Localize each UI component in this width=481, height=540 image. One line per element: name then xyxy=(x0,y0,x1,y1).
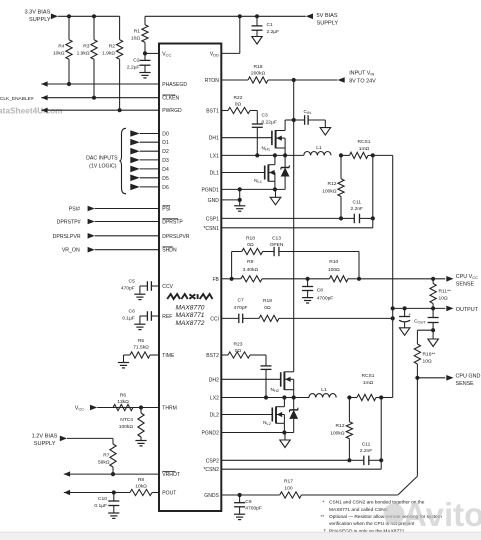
svg-text:0.1µF: 0.1µF xyxy=(94,503,107,509)
node THRM xyxy=(139,405,143,409)
wire CSN2 xyxy=(221,468,381,470)
svg-text:INPUT VIN: INPUT VIN xyxy=(349,71,374,77)
label R12 phase1 xyxy=(322,181,337,194)
node C3 bottom xyxy=(255,153,259,157)
pin label D2 xyxy=(162,149,169,155)
wire PGND1 xyxy=(221,188,285,190)
wire PWRGD xyxy=(41,109,159,111)
node L2 out xyxy=(347,395,351,399)
label R7 xyxy=(98,452,110,465)
pin label DPRSTP (active low) xyxy=(162,219,183,226)
svg-text:THRM: THRM xyxy=(162,406,177,412)
thermistor NTC4 xyxy=(138,408,144,441)
svg-text:SENSE: SENSE xyxy=(456,381,475,387)
note line 4 xyxy=(329,521,415,527)
D6 input arrow xyxy=(130,184,159,191)
resistor RCS2 xyxy=(349,394,381,400)
label C10 xyxy=(94,496,107,509)
pin label *CSN2 xyxy=(203,467,219,473)
svg-text:10Ω: 10Ω xyxy=(131,36,140,42)
svg-text:R12: R12 xyxy=(336,423,345,429)
label NL1 xyxy=(254,178,262,184)
ground C1 triangle xyxy=(252,37,262,45)
wire C13 riser xyxy=(358,252,360,279)
svg-text:R23: R23 xyxy=(234,341,243,347)
svg-text:470pF: 470pF xyxy=(234,305,248,311)
CPU GND sense arrow xyxy=(446,375,453,381)
capacitor C3 (BST1) xyxy=(252,111,263,156)
wire CSN1 riser xyxy=(372,155,374,227)
node GND xyxy=(238,198,242,202)
pin label DL1 xyxy=(210,171,219,177)
label R2 xyxy=(102,44,115,57)
svg-text:NTC4: NTC4 xyxy=(120,417,133,423)
wire DL1 xyxy=(221,172,264,174)
node output rail-output xyxy=(391,306,395,310)
D5 input arrow xyxy=(130,175,159,182)
VRHOT arrow xyxy=(64,471,70,476)
ground phase1 triangle xyxy=(270,189,281,204)
node PGND1 gnd-link xyxy=(238,187,242,191)
resistor R12 (phase1) xyxy=(338,155,344,218)
svg-text:L1: L1 xyxy=(321,387,327,393)
label MAX8770 xyxy=(176,304,205,311)
svg-text:PWRGD: PWRGD xyxy=(162,108,182,114)
wire gnd sense diagonal xyxy=(398,476,418,495)
label DAC INPUTS xyxy=(86,156,118,170)
svg-text:PSI: PSI xyxy=(162,207,170,213)
svg-text:PGND2: PGND2 xyxy=(202,431,220,437)
svg-text:DPRSLPVR: DPRSLPVR xyxy=(53,234,81,240)
wire CPU GND sense xyxy=(417,377,445,379)
svg-text:NH1: NH1 xyxy=(262,146,271,152)
pin label CLKEN (active low) xyxy=(162,95,179,102)
node NL1 source xyxy=(273,187,277,191)
resistor R6 xyxy=(113,404,133,410)
svg-text:5V BIAS: 5V BIAS xyxy=(317,13,338,19)
svg-text:71.5kΩ: 71.5kΩ xyxy=(133,344,149,350)
watermark DataSheet4U.com xyxy=(0,105,63,115)
svg-text:GNDS: GNDS xyxy=(204,493,219,499)
resistor R2 xyxy=(117,16,123,110)
pin label BST1 xyxy=(206,109,219,115)
svg-text:*CSN2: *CSN2 xyxy=(203,467,219,473)
ground Cout2 triangle xyxy=(428,330,439,346)
svg-text:D0: D0 xyxy=(162,132,169,138)
label C1 xyxy=(267,22,280,35)
svg-text:100kΩ: 100kΩ xyxy=(322,188,337,194)
svg-text:(1V LOGIC): (1V LOGIC) xyxy=(89,164,117,170)
svg-text:SUPPLY: SUPPLY xyxy=(29,17,51,23)
node VCC xyxy=(143,51,147,55)
pin label FB xyxy=(212,277,219,283)
svg-text:+: + xyxy=(408,312,411,317)
svg-text:0Ω: 0Ω xyxy=(235,101,242,107)
pin label VDD xyxy=(210,51,219,57)
pin label D1 xyxy=(162,140,169,146)
wire PHASEGD xyxy=(41,83,159,85)
node NL1 drain xyxy=(273,153,277,157)
svg-text:VCC: VCC xyxy=(75,406,84,412)
D4 input arrow xyxy=(130,166,159,173)
svg-text:OPEN: OPEN xyxy=(270,242,284,248)
svg-text:100kΩ: 100kΩ xyxy=(330,430,345,436)
node R11 top xyxy=(431,277,435,281)
ground C5 xyxy=(134,294,145,299)
svg-text:100: 100 xyxy=(284,485,292,491)
pin label D0 xyxy=(162,132,169,138)
svg-text:R16**: R16** xyxy=(423,352,436,358)
svg-text:R2: R2 xyxy=(109,44,116,50)
label C2 xyxy=(127,58,140,71)
svg-text:L1: L1 xyxy=(316,145,322,151)
note line 1 xyxy=(323,499,425,505)
svg-text:R1: R1 xyxy=(134,29,141,35)
svg-text:SUPPLY: SUPPLY xyxy=(34,441,56,447)
resistor R22 xyxy=(228,107,257,113)
svg-text:470pF: 470pF xyxy=(121,285,135,291)
label MAX8772 xyxy=(176,320,205,327)
svg-text:CSP1: CSP1 xyxy=(206,216,219,222)
node C1 top xyxy=(255,14,259,18)
resistor R16 xyxy=(414,344,420,378)
wire PGND2 xyxy=(221,432,293,434)
node RCS1 out xyxy=(371,153,375,157)
svg-text:2.2nF: 2.2nF xyxy=(360,448,373,454)
label 1.2V BIAS SUPPLY xyxy=(32,433,58,447)
pin label VCC xyxy=(162,51,171,57)
svg-text:0Ω: 0Ω xyxy=(247,242,254,248)
capacitor C13 xyxy=(274,247,359,256)
wire output rail xyxy=(392,155,394,397)
label C11 phase2 xyxy=(360,441,373,454)
note line 3 xyxy=(321,514,442,520)
resistor R18 (FB) xyxy=(232,248,275,254)
capacitor COUT (electrolytic) xyxy=(399,308,411,327)
svg-text:MAX8771 and called CSN2.: MAX8771 and called CSN2. xyxy=(329,507,389,513)
svg-text:NH2: NH2 xyxy=(271,387,280,393)
label RCS1 xyxy=(357,139,370,152)
svg-text:R5: R5 xyxy=(138,338,145,344)
svg-text:DL1: DL1 xyxy=(210,171,219,177)
capacitor C8 xyxy=(302,279,313,298)
svg-text:10Ω: 10Ω xyxy=(439,296,448,302)
svg-text:PHASEGD: PHASEGD xyxy=(162,82,187,88)
svg-text:VR_ON: VR_ON xyxy=(62,248,80,254)
label CIN xyxy=(304,109,312,115)
svg-text:Avito: Avito xyxy=(403,496,481,533)
wire GND riser xyxy=(239,189,241,205)
svg-text:D6: D6 xyxy=(162,185,169,191)
svg-text:DH2: DH2 xyxy=(209,377,219,383)
node sense gnd xyxy=(431,328,435,332)
node INPUT xyxy=(292,78,296,82)
resistor R1 xyxy=(142,16,148,53)
svg-text:R6: R6 xyxy=(120,393,127,399)
label R22 xyxy=(234,95,243,108)
svg-text:DPRSTP#: DPRSTP# xyxy=(57,220,81,226)
ground CIN triangle xyxy=(320,128,331,136)
node NH2 source xyxy=(292,395,296,399)
label R3 xyxy=(77,44,90,57)
wire BST2 xyxy=(221,354,228,356)
resistor R17 xyxy=(280,492,398,498)
svg-text:CCV: CCV xyxy=(162,284,173,290)
label R1 xyxy=(131,29,140,42)
label R23 xyxy=(234,341,243,354)
wire CPU VCC sense xyxy=(359,278,445,280)
ground GND xyxy=(234,206,245,211)
svg-text:TIME: TIME xyxy=(162,353,175,359)
VR_ON arrow xyxy=(88,247,159,253)
svg-text:C3: C3 xyxy=(262,113,269,119)
node R3 top xyxy=(92,14,96,18)
svg-text:DL2: DL2 xyxy=(210,413,219,419)
label DPRSLPVR xyxy=(53,234,81,240)
svg-text:13kΩ: 13kΩ xyxy=(117,399,129,405)
resistor R7 xyxy=(110,444,116,474)
label PSI# xyxy=(69,207,80,213)
wire FB xyxy=(221,278,231,280)
label L1 xyxy=(316,145,322,151)
svg-text:RTON: RTON xyxy=(205,78,219,84)
node POUT xyxy=(112,490,116,494)
wire OUTPUT xyxy=(393,307,446,309)
svg-text:1.2V BIAS: 1.2V BIAS xyxy=(32,433,58,439)
capacitor CIN xyxy=(294,115,326,127)
svg-text:CLKEN: CLKEN xyxy=(162,96,179,102)
node NH1 drain xyxy=(292,118,296,122)
wire 5V rail xyxy=(145,15,306,17)
svg-text:10kΩ: 10kΩ xyxy=(135,484,147,490)
label R16 xyxy=(423,352,436,365)
label CPU VCC SENSE xyxy=(456,274,478,288)
PSI arrow xyxy=(88,206,159,212)
svg-text:C5: C5 xyxy=(129,278,136,284)
label R10 xyxy=(328,259,340,273)
label C6 xyxy=(122,308,135,321)
pin label D6 xyxy=(162,185,169,191)
op-amp U1 MAX8770 controller IC body xyxy=(159,44,221,512)
svg-text:0Ω: 0Ω xyxy=(235,348,242,354)
wire CSN2 riser xyxy=(380,398,382,470)
svg-text:PSI#: PSI# xyxy=(69,207,80,213)
node CLKEN-R3 xyxy=(92,96,96,100)
pin label D4 xyxy=(162,167,169,173)
svg-text:D1: D1 xyxy=(162,140,169,146)
node FB xyxy=(230,277,234,281)
pin label VRHOT (active low) xyxy=(162,471,180,478)
pin label CSP2 xyxy=(206,458,219,464)
svg-text:MAX8770: MAX8770 xyxy=(176,304,205,311)
node R10 right xyxy=(357,277,361,281)
svg-text:10kΩ: 10kΩ xyxy=(53,51,65,57)
wire BST1 xyxy=(221,110,228,112)
label MAXIM logo xyxy=(167,294,212,299)
pin label PGND2 xyxy=(202,431,220,437)
1.2V arrow xyxy=(60,436,67,442)
pin label PHASEGD xyxy=(162,82,187,88)
wire 1.2V xyxy=(67,438,113,444)
svg-text:C11: C11 xyxy=(362,441,371,447)
CLKEN arrow xyxy=(41,95,47,100)
wire LX2 xyxy=(221,397,309,399)
label C5 xyxy=(121,278,135,291)
D0 input arrow xyxy=(130,130,159,137)
node CSP1 xyxy=(339,216,343,220)
wire FB riser xyxy=(231,252,233,279)
svg-text:100Ω: 100Ω xyxy=(328,267,340,273)
node PHASEGD-R4 xyxy=(67,82,71,86)
svg-text:3.3V BIAS: 3.3V BIAS xyxy=(25,10,51,16)
label R4 xyxy=(53,44,65,57)
label CLK_ENABLE# xyxy=(0,96,34,102)
svg-text:*CSN1: *CSN1 xyxy=(203,226,219,232)
INPUT arrow xyxy=(338,77,345,83)
label C13 xyxy=(270,235,284,248)
label OUTPUT xyxy=(456,307,479,313)
bottom page band xyxy=(0,532,481,540)
resistor R18 (CCI) xyxy=(243,315,393,321)
label COUT xyxy=(414,318,426,324)
svg-text:1.9kΩ: 1.9kΩ xyxy=(77,51,90,57)
svg-text:NL2: NL2 xyxy=(263,420,271,426)
wire RTON xyxy=(221,79,248,81)
pin label D5 xyxy=(162,176,169,182)
wire CLKEN xyxy=(41,97,159,99)
node CBST2 bottom xyxy=(264,395,268,399)
wire CSN1 xyxy=(221,227,372,229)
ground NTC4 xyxy=(135,441,146,446)
svg-text:R9: R9 xyxy=(247,259,254,265)
wire rail to RCS2 xyxy=(381,397,393,399)
pin label GND xyxy=(208,198,220,204)
svg-text:FB: FB xyxy=(212,277,219,283)
svg-text:LX2: LX2 xyxy=(210,396,219,402)
resistor RCS1 xyxy=(341,152,373,158)
wire CSP1 xyxy=(221,217,341,219)
svg-text:VRHOT: VRHOT xyxy=(162,472,180,478)
svg-text:0Ω: 0Ω xyxy=(264,305,271,311)
label R6 xyxy=(117,393,129,406)
svg-text:NL1: NL1 xyxy=(254,178,262,184)
svg-text:R18: R18 xyxy=(246,235,255,241)
node CPU GND sense xyxy=(415,376,419,380)
label NL2 xyxy=(263,420,271,426)
svg-text:VCC: VCC xyxy=(162,51,171,57)
svg-text:4700pF: 4700pF xyxy=(245,506,262,512)
node VDD riser xyxy=(238,14,242,18)
svg-text:0.22µF: 0.22µF xyxy=(262,119,277,125)
capacitor C2 xyxy=(140,53,151,72)
resistor R8 xyxy=(130,489,159,495)
capacitor C10 xyxy=(108,493,119,514)
CPU VCC sense arrow xyxy=(446,276,453,282)
svg-text:C8: C8 xyxy=(317,288,324,294)
wire LX1 xyxy=(221,154,303,156)
svg-text:*: * xyxy=(323,499,325,505)
svg-text:GND: GND xyxy=(208,198,220,204)
svg-text:R3: R3 xyxy=(83,44,90,50)
svg-text:D3: D3 xyxy=(162,158,169,164)
pin label BST2 xyxy=(206,353,219,359)
label VCC thrm xyxy=(75,406,84,412)
ground phase2 triangle xyxy=(280,433,290,448)
resistor R10 xyxy=(308,276,359,282)
node VRHOT xyxy=(111,472,115,476)
POUT arrow xyxy=(64,490,70,495)
ground C2 xyxy=(139,73,150,78)
OUTPUT arrow xyxy=(446,306,453,312)
svg-text:CIN: CIN xyxy=(304,109,312,115)
label C7 xyxy=(234,298,248,311)
pin label DH1 xyxy=(209,136,219,142)
svg-text:R11**: R11** xyxy=(439,289,452,295)
inductor L1 xyxy=(304,151,331,155)
resistor R5 xyxy=(124,352,160,363)
pin label CCI xyxy=(210,316,219,322)
pin label POUT xyxy=(162,491,176,497)
pin label *CSN1 xyxy=(203,226,219,232)
pin label TIME xyxy=(162,353,175,359)
capacitor C7 xyxy=(239,314,243,324)
wire VRHOT xyxy=(64,473,159,475)
wire node B to output rail xyxy=(373,154,393,156)
inductor L2 xyxy=(309,394,336,398)
label C8 xyxy=(317,288,334,302)
svg-text:CCI: CCI xyxy=(210,316,219,322)
wire GND xyxy=(221,199,239,201)
svg-text:C13: C13 xyxy=(272,235,281,241)
resistor R3 xyxy=(91,16,97,97)
capacitor C11 (phase2) xyxy=(349,456,381,466)
node NL2 source xyxy=(282,430,286,434)
ground R5 xyxy=(118,363,129,368)
svg-text:R18: R18 xyxy=(263,298,272,304)
node C8 top xyxy=(306,277,310,281)
svg-text:1.9kΩ: 1.9kΩ xyxy=(102,51,115,57)
svg-text:BST1: BST1 xyxy=(206,109,219,115)
ground C6 xyxy=(134,324,145,329)
svg-text:OUTPUT: OUTPUT xyxy=(456,307,479,313)
svg-text:3.40kΩ: 3.40kΩ xyxy=(242,267,258,273)
svg-text:DPRSTP: DPRSTP xyxy=(162,220,183,226)
ground COUT triangle xyxy=(399,328,410,336)
capacitor C5 xyxy=(140,281,159,294)
svg-text:REF: REF xyxy=(162,314,172,320)
svg-text:DH1: DH1 xyxy=(209,136,219,142)
wire R16 link xyxy=(417,330,433,344)
resistor R12 (phase2) xyxy=(346,398,352,461)
svg-text:8V TO 24V: 8V TO 24V xyxy=(349,78,376,84)
label L2 xyxy=(321,387,327,393)
pin label D3 xyxy=(162,158,169,164)
node L1 out xyxy=(339,153,343,157)
svg-text:CPU GND: CPU GND xyxy=(456,373,481,379)
pin label SHDN (active low) xyxy=(162,247,177,254)
DPRSLPVR arrow xyxy=(88,233,159,239)
svg-text:BST2: BST2 xyxy=(206,353,219,359)
svg-text:D2: D2 xyxy=(162,149,169,155)
ground C8 xyxy=(302,298,313,303)
wire INPUT xyxy=(294,79,338,81)
wire gnd sense riser xyxy=(416,378,418,476)
wire VIN rail xyxy=(293,80,295,372)
svg-text:RCS1: RCS1 xyxy=(357,139,370,145)
5V supply arrow xyxy=(306,14,313,20)
svg-text:CLK_ENABLE#: CLK_ENABLE# xyxy=(0,96,34,102)
VCC arrow xyxy=(90,405,97,411)
